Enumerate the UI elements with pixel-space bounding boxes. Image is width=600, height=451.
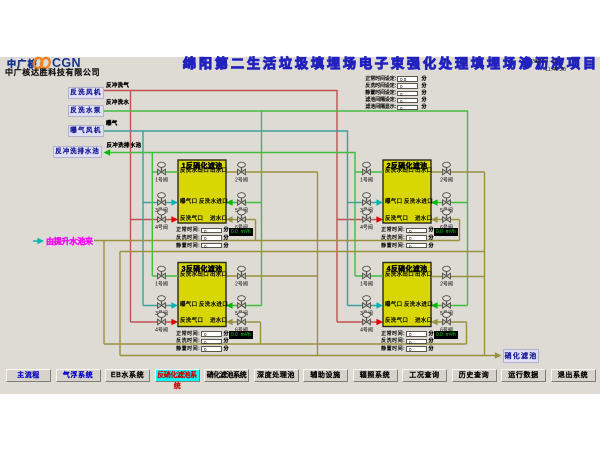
arrow red into tank2 反洗气口 (376, 216, 383, 222)
tank 2 port labels (385, 169, 414, 175)
pipe olive branch tank2 进水口 (437, 219, 460, 221)
svg-text:4号阀: 4号阀 (360, 327, 373, 334)
tank 1 正常时间: row (172, 228, 200, 233)
arrow red into tank1 反洗气口 (171, 216, 178, 222)
arrow red into tank3 反洗气口 (171, 319, 178, 325)
svg-text:4号阀: 4号阀 (360, 224, 373, 231)
pipe teal branch to tank1 曝气口 (143, 202, 172, 204)
valve tank3 6号阀 (238, 312, 246, 325)
datetime date (531, 60, 558, 66)
arrow teal into tank4 曝气口 (376, 302, 383, 308)
sink box 反冲洗排水池 (53, 146, 102, 158)
tank 4 port labels (385, 273, 414, 279)
pipe olive outlet collector tanks 2/4 (484, 172, 486, 356)
tank 3 反洗时间: row (172, 339, 200, 344)
valve tank2 2号阀 (443, 162, 451, 175)
pipe green wash branch tank4 反洗水进口 (437, 305, 468, 307)
tank 1 title (178, 163, 226, 170)
datetime time (545, 68, 566, 74)
pipe teal branch to tank3 曝气口 (143, 305, 172, 307)
pipe olive down-feed for tanks 3/4 (103, 241, 105, 345)
pipe red branch to tank4 反洗气口 (337, 321, 378, 323)
button 硝化滤池系统 (204, 369, 249, 382)
svg-text:2号阀: 2号阀 (440, 281, 453, 288)
pipe red branch to tank3 反洗气口 (131, 321, 173, 323)
pipe red riser for tanks 1/3 (130, 91, 132, 323)
button 退出系统 (551, 369, 596, 382)
pipe 反冲洗气 main header (red) (104, 90, 338, 92)
valve tank1 4号阀 (158, 210, 166, 223)
setting row 滤池间隔设定: (356, 98, 396, 103)
svg-text:2号阀: 2号阀 (440, 177, 453, 184)
source box 曝气风机 (68, 125, 104, 137)
arrow red into tank4 反洗气口 (376, 319, 383, 325)
tank 1 port labels (180, 169, 209, 175)
arrow green into tank4 反洗水进口 (431, 302, 438, 308)
valve tank1 3号阀 (158, 193, 166, 206)
pipe label 曝气 (106, 122, 118, 128)
pipe 反冲洗排水 header (green) (109, 152, 356, 154)
arrow green into tank3 反洗水进口 (226, 302, 233, 308)
valve tank2 3号阀 (363, 193, 371, 206)
svg-text:1号阀: 1号阀 (360, 177, 373, 184)
pipe green wash branch tank3 反洗水进口 (232, 305, 262, 307)
valve tank4 4号阀 (363, 312, 371, 325)
arrow olive into 硝化滤池 (495, 352, 502, 358)
svg-text:1号阀: 1号阀 (155, 281, 168, 288)
tank 4 反洗时间: row (377, 339, 405, 344)
button 辐照系统 (353, 369, 398, 382)
pipe green drain branch tank4 反洗水出口 (355, 275, 383, 277)
svg-text:1号阀: 1号阀 (155, 177, 168, 184)
tank 3 title (178, 266, 226, 273)
valve tank1 1号阀 (158, 162, 166, 175)
pipe olive outlet tank4 出水口 (431, 276, 485, 278)
pipe raw water header upper (olive) (94, 240, 460, 242)
valve tank3 2号阀 (238, 266, 246, 279)
pipe green wash branch tank2 反洗水进口 (437, 202, 468, 204)
tank 4反硝化滤池 body (383, 263, 431, 327)
arrow olive into tank4 进水口 (431, 319, 438, 325)
pipe olive riser to tank4 进水口 (466, 322, 468, 344)
pipe red riser for tanks 2/4 (336, 91, 338, 323)
arrow green into tank2 反洗水进口 (431, 199, 438, 205)
svg-text:4号阀: 4号阀 (155, 224, 168, 231)
valve tank4 1号阀 (363, 266, 371, 279)
tank 1 静置时间: row (172, 244, 200, 249)
tank 2 title (383, 163, 431, 170)
button 工况查询 (402, 369, 447, 382)
pipe olive riser to tank1 进水口 (255, 220, 257, 241)
logo text CGN (52, 57, 81, 70)
valve tank1 2号阀 (238, 162, 246, 175)
tank 1反硝化滤池 body (178, 160, 226, 223)
tank 3 port labels (180, 273, 209, 279)
valve tank2 5号阀 (443, 193, 451, 206)
pipe olive riser to tank3 进水口 (260, 322, 262, 344)
pipe green wash branch tank1 反洗水进口 (232, 202, 262, 204)
arrow teal into tank2 曝气口 (376, 199, 383, 205)
setting row 静置时间设定: (356, 91, 396, 96)
button 深度处理池 (254, 369, 299, 382)
pipe raw water header lower (olive) (104, 343, 467, 345)
pipe red branch to tank1 反洗气口 (131, 219, 173, 221)
pipe red branch to tank2 反洗气口 (337, 219, 378, 221)
button 历史查询 (452, 369, 497, 382)
pipe label 反冲洗排水池 (107, 144, 142, 150)
arrow olive into tank1 进水口 (226, 216, 233, 222)
pipe teal riser for tanks 2/4 (347, 131, 349, 306)
pipe green drain branch tank3 反洗水出口 (152, 275, 178, 277)
pipe olive riser to tank2 进水口 (459, 220, 461, 241)
svg-text:1号阀: 1号阀 (360, 281, 373, 288)
valve tank1 5号阀 (238, 193, 246, 206)
tank 2 flow indicator (434, 228, 459, 236)
pipe 曝气 main header (teal) (104, 130, 348, 132)
pipe green drain branch tank2 反洗水出口 (355, 171, 383, 173)
tank 2反硝化滤池 body (383, 160, 431, 223)
pipe olive bottom collector to 硝化滤池 (120, 355, 496, 357)
logo text 中广核 (7, 60, 38, 69)
pipe teal branch to tank4 曝气口 (348, 305, 378, 307)
arrow green into 反冲洗排水池 (104, 149, 111, 155)
arrow teal from 提升水池 (37, 238, 44, 244)
tank 4 正常时间: row (377, 332, 405, 337)
valve tank4 3号阀 (363, 296, 371, 309)
valve tank2 4号阀 (363, 210, 371, 223)
button 气浮系统 (56, 369, 101, 382)
svg-text:2号阀: 2号阀 (235, 177, 248, 184)
setting row 滤池间隔显示: (356, 105, 396, 110)
sink box 硝化滤池 (503, 349, 539, 363)
button 反硝化滤池系统 (155, 369, 200, 382)
valve tank4 5号阀 (443, 296, 451, 309)
pipe olive outlet collector tanks 1/3 (317, 172, 319, 356)
valve tank3 1号阀 (158, 266, 166, 279)
pipe olive outlet tank3 出水口 (226, 275, 318, 277)
svg-text:4号阀: 4号阀 (155, 327, 168, 334)
setting row 反洗时间设定: (356, 84, 396, 89)
valve tank3 3号阀 (158, 296, 166, 309)
button 运行数据 (501, 369, 546, 382)
arrow teal into tank1 曝气口 (171, 199, 178, 205)
pipe olive branch tank4 进水口 (437, 321, 467, 323)
pipe label 反冲洗水 (106, 101, 129, 107)
arrow green into tank1 反洗水进口 (226, 199, 233, 205)
pipe 反冲洗水 main header (green) (104, 110, 468, 112)
valve tank2 6号阀 (443, 210, 451, 223)
tank 3反硝化滤池 body (178, 263, 226, 327)
tank 2 反洗时间: row (377, 236, 405, 241)
inflow label 由提升水池来 (46, 238, 93, 246)
stub teal from 提升水池 (33, 240, 39, 242)
pipe teal riser for tanks 1/3 (142, 131, 144, 306)
valve tank4 6号阀 (443, 312, 451, 325)
tank 3 flow indicator (229, 331, 254, 339)
tank 2 静置时间: row (377, 244, 405, 249)
tank 2 正常时间: row (377, 228, 405, 233)
pipe olive left down leg (119, 252, 121, 356)
logo mark (orange CGN symbol) (31, 55, 53, 71)
company name 中广核达胜科技有限公司 (5, 69, 100, 77)
arrow olive into tank2 进水口 (431, 216, 438, 222)
pipe green drain riser tanks 1/3 (151, 153, 153, 277)
pipe green drain riser tanks 2/4 (354, 153, 356, 277)
valve tank3 4号阀 (158, 312, 166, 325)
button 主流程 (6, 369, 51, 382)
tank 4 title (383, 266, 431, 273)
pipe green wash riser for tanks 2/4 (467, 111, 469, 306)
source box 反洗水泵 (68, 105, 104, 117)
tank 1 flow indicator (229, 228, 254, 236)
tank 3 静置时间: row (172, 347, 200, 352)
button EB水系统 (105, 369, 150, 382)
pipe teal branch to tank2 曝气口 (348, 202, 378, 204)
tank 4 flow indicator (434, 331, 459, 339)
valve tank1 6号阀 (238, 210, 246, 223)
pipe olive cross header mid (olive) (120, 251, 485, 253)
svg-text:2号阀: 2号阀 (235, 281, 248, 288)
tank 4 静置时间: row (377, 347, 405, 352)
arrow olive into tank3 进水口 (226, 319, 233, 325)
pipe olive branch tank3 进水口 (232, 321, 261, 323)
pipe green drain branch tank1 反洗水出口 (152, 171, 178, 173)
arrow teal into tank3 曝气口 (171, 302, 178, 308)
valve tank4 2号阀 (443, 266, 451, 279)
setting row 正常时间设定: (356, 77, 396, 82)
tank 3 正常时间: row (172, 332, 200, 337)
pipe olive outlet tank1 出水口 (226, 171, 318, 173)
pipe olive outlet tank2 出水口 (431, 171, 485, 173)
source box 反洗风机 (68, 87, 104, 99)
button 辅助设施 (303, 369, 348, 382)
tank 1 反洗时间: row (172, 236, 200, 241)
valve tank2 1号阀 (363, 162, 371, 175)
pipe green wash riser for tanks 1/3 (261, 111, 263, 306)
valve tank3 5号阀 (238, 296, 246, 309)
gray HMI panel background (0, 57, 600, 394)
main title (183, 57, 599, 70)
pipe olive branch tank1 进水口 (232, 219, 256, 221)
pipe label 反冲洗气 (106, 84, 129, 90)
